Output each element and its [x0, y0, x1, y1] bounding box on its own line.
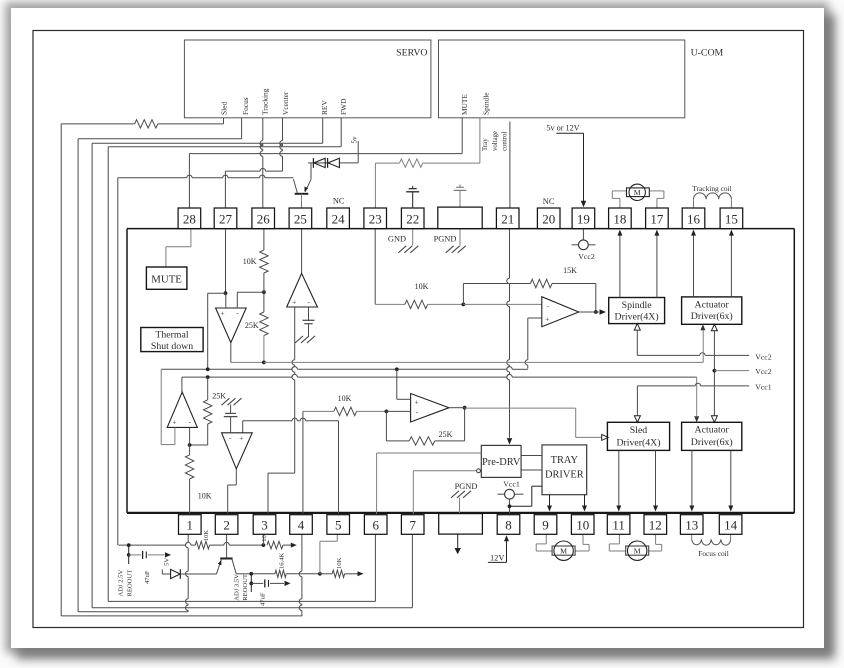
svg-text:12V: 12V — [490, 553, 504, 562]
svg-text:REV: REV — [320, 100, 329, 115]
svg-text:25: 25 — [294, 211, 307, 226]
svg-text:47uF: 47uF — [260, 592, 267, 606]
svg-text:Spindle: Spindle — [481, 92, 490, 115]
svg-text:+: + — [220, 309, 224, 318]
svg-text:Pre-DRV: Pre-DRV — [482, 457, 521, 468]
svg-text:20: 20 — [542, 211, 555, 226]
svg-text:19: 19 — [577, 211, 590, 226]
svg-text:NC: NC — [543, 197, 555, 206]
svg-text:23: 23 — [369, 211, 382, 226]
svg-text:M: M — [634, 547, 641, 556]
svg-text:Sled: Sled — [630, 425, 648, 436]
svg-text:15K: 15K — [563, 266, 577, 275]
svg-text:10K: 10K — [336, 557, 343, 569]
svg-text:12: 12 — [649, 518, 662, 533]
svg-text:4: 4 — [298, 518, 305, 533]
svg-text:10K: 10K — [415, 282, 429, 291]
svg-text:Driver(4X): Driver(4X) — [616, 437, 660, 448]
svg-text:16.4K: 16.4K — [278, 552, 285, 569]
svg-text:Vcc1: Vcc1 — [755, 382, 772, 391]
svg-text:FWD: FWD — [339, 98, 348, 115]
svg-text:5v: 5v — [351, 136, 359, 144]
svg-text:MUTE: MUTE — [460, 94, 469, 115]
svg-text:Tray: Tray — [482, 138, 489, 151]
svg-text:22: 22 — [406, 211, 419, 226]
svg-text:TRAY: TRAY — [551, 455, 579, 466]
svg-text:17: 17 — [650, 211, 664, 226]
svg-text:25K: 25K — [245, 321, 259, 330]
svg-text:10: 10 — [576, 518, 589, 533]
svg-text:Vcc2: Vcc2 — [578, 252, 595, 261]
svg-text:control: control — [502, 132, 509, 151]
svg-text:MUTE: MUTE — [151, 273, 182, 285]
svg-text:21: 21 — [501, 211, 514, 226]
svg-text:ADJ 2.5V: ADJ 2.5V — [118, 570, 125, 597]
svg-text:14: 14 — [724, 518, 738, 533]
svg-text:+: + — [292, 297, 296, 306]
svg-text:10K: 10K — [338, 394, 352, 403]
svg-text:24: 24 — [332, 211, 346, 226]
svg-text:ADJ 3.5V: ADJ 3.5V — [233, 574, 240, 601]
svg-text:2: 2 — [223, 518, 230, 533]
svg-text:18: 18 — [613, 211, 626, 226]
svg-text:Driver(6x): Driver(6x) — [691, 311, 733, 322]
svg-text:Driver(4X): Driver(4X) — [615, 311, 659, 322]
svg-text:U-COM: U-COM — [691, 48, 724, 59]
svg-text:5V: 5V — [163, 558, 170, 566]
svg-text:10K: 10K — [198, 492, 212, 501]
svg-text:27: 27 — [219, 211, 233, 226]
svg-text:3: 3 — [261, 518, 268, 533]
svg-text:13: 13 — [685, 518, 698, 533]
svg-text:+: + — [239, 433, 243, 442]
svg-text:+: + — [172, 418, 176, 427]
svg-text:M: M — [560, 547, 567, 556]
svg-text:Focus coil: Focus coil — [698, 549, 729, 558]
svg-text:9: 9 — [542, 518, 549, 533]
svg-text:Focus: Focus — [241, 97, 250, 115]
svg-text:REOOUT: REOOUT — [126, 570, 133, 597]
svg-text:DRIVER: DRIVER — [545, 470, 584, 481]
svg-text:SERVO: SERVO — [396, 48, 427, 59]
svg-text:5: 5 — [335, 518, 342, 533]
svg-text:PGND: PGND — [455, 482, 478, 491]
svg-text:PGND: PGND — [434, 235, 457, 244]
svg-text:voltage: voltage — [492, 131, 499, 151]
svg-text:Vcenter: Vcenter — [281, 91, 290, 115]
svg-text:Vcc2: Vcc2 — [755, 353, 772, 362]
svg-text:26: 26 — [257, 211, 271, 226]
svg-text:REOOUT: REOOUT — [242, 574, 249, 601]
svg-text:Tracking: Tracking — [260, 88, 269, 115]
svg-text:Sled: Sled — [219, 102, 228, 115]
svg-text:Spindle: Spindle — [622, 300, 653, 311]
svg-text:10K: 10K — [243, 257, 257, 266]
svg-text:GND: GND — [388, 235, 406, 244]
svg-text:Shut down: Shut down — [151, 341, 193, 352]
svg-text:Tracking coil: Tracking coil — [692, 184, 731, 193]
svg-text:16: 16 — [687, 211, 701, 226]
svg-text:+: + — [414, 397, 418, 406]
svg-text:Actuator: Actuator — [695, 299, 730, 310]
svg-text:6: 6 — [372, 518, 379, 533]
svg-text:15: 15 — [725, 211, 738, 226]
svg-text:M: M — [634, 188, 641, 197]
svg-text:+: + — [545, 314, 549, 323]
svg-text:8: 8 — [505, 518, 512, 533]
svg-text:1: 1 — [187, 518, 194, 533]
svg-text:Vcc1: Vcc1 — [503, 479, 520, 488]
svg-text:28: 28 — [183, 211, 196, 226]
svg-text:10K: 10K — [203, 530, 210, 542]
svg-text:7: 7 — [409, 518, 416, 533]
svg-text:25K: 25K — [212, 392, 226, 401]
svg-text:Thermal: Thermal — [155, 330, 188, 341]
svg-text:11: 11 — [612, 518, 625, 533]
svg-text:47uF: 47uF — [144, 570, 151, 584]
svg-text:25K: 25K — [439, 430, 453, 439]
svg-text:Vcc2: Vcc2 — [755, 367, 772, 376]
svg-text:Driver(6x): Driver(6x) — [691, 437, 733, 448]
svg-text:5v or 12V: 5v or 12V — [546, 124, 579, 133]
svg-text:Actuator: Actuator — [695, 425, 730, 436]
svg-text:NC: NC — [333, 197, 345, 206]
